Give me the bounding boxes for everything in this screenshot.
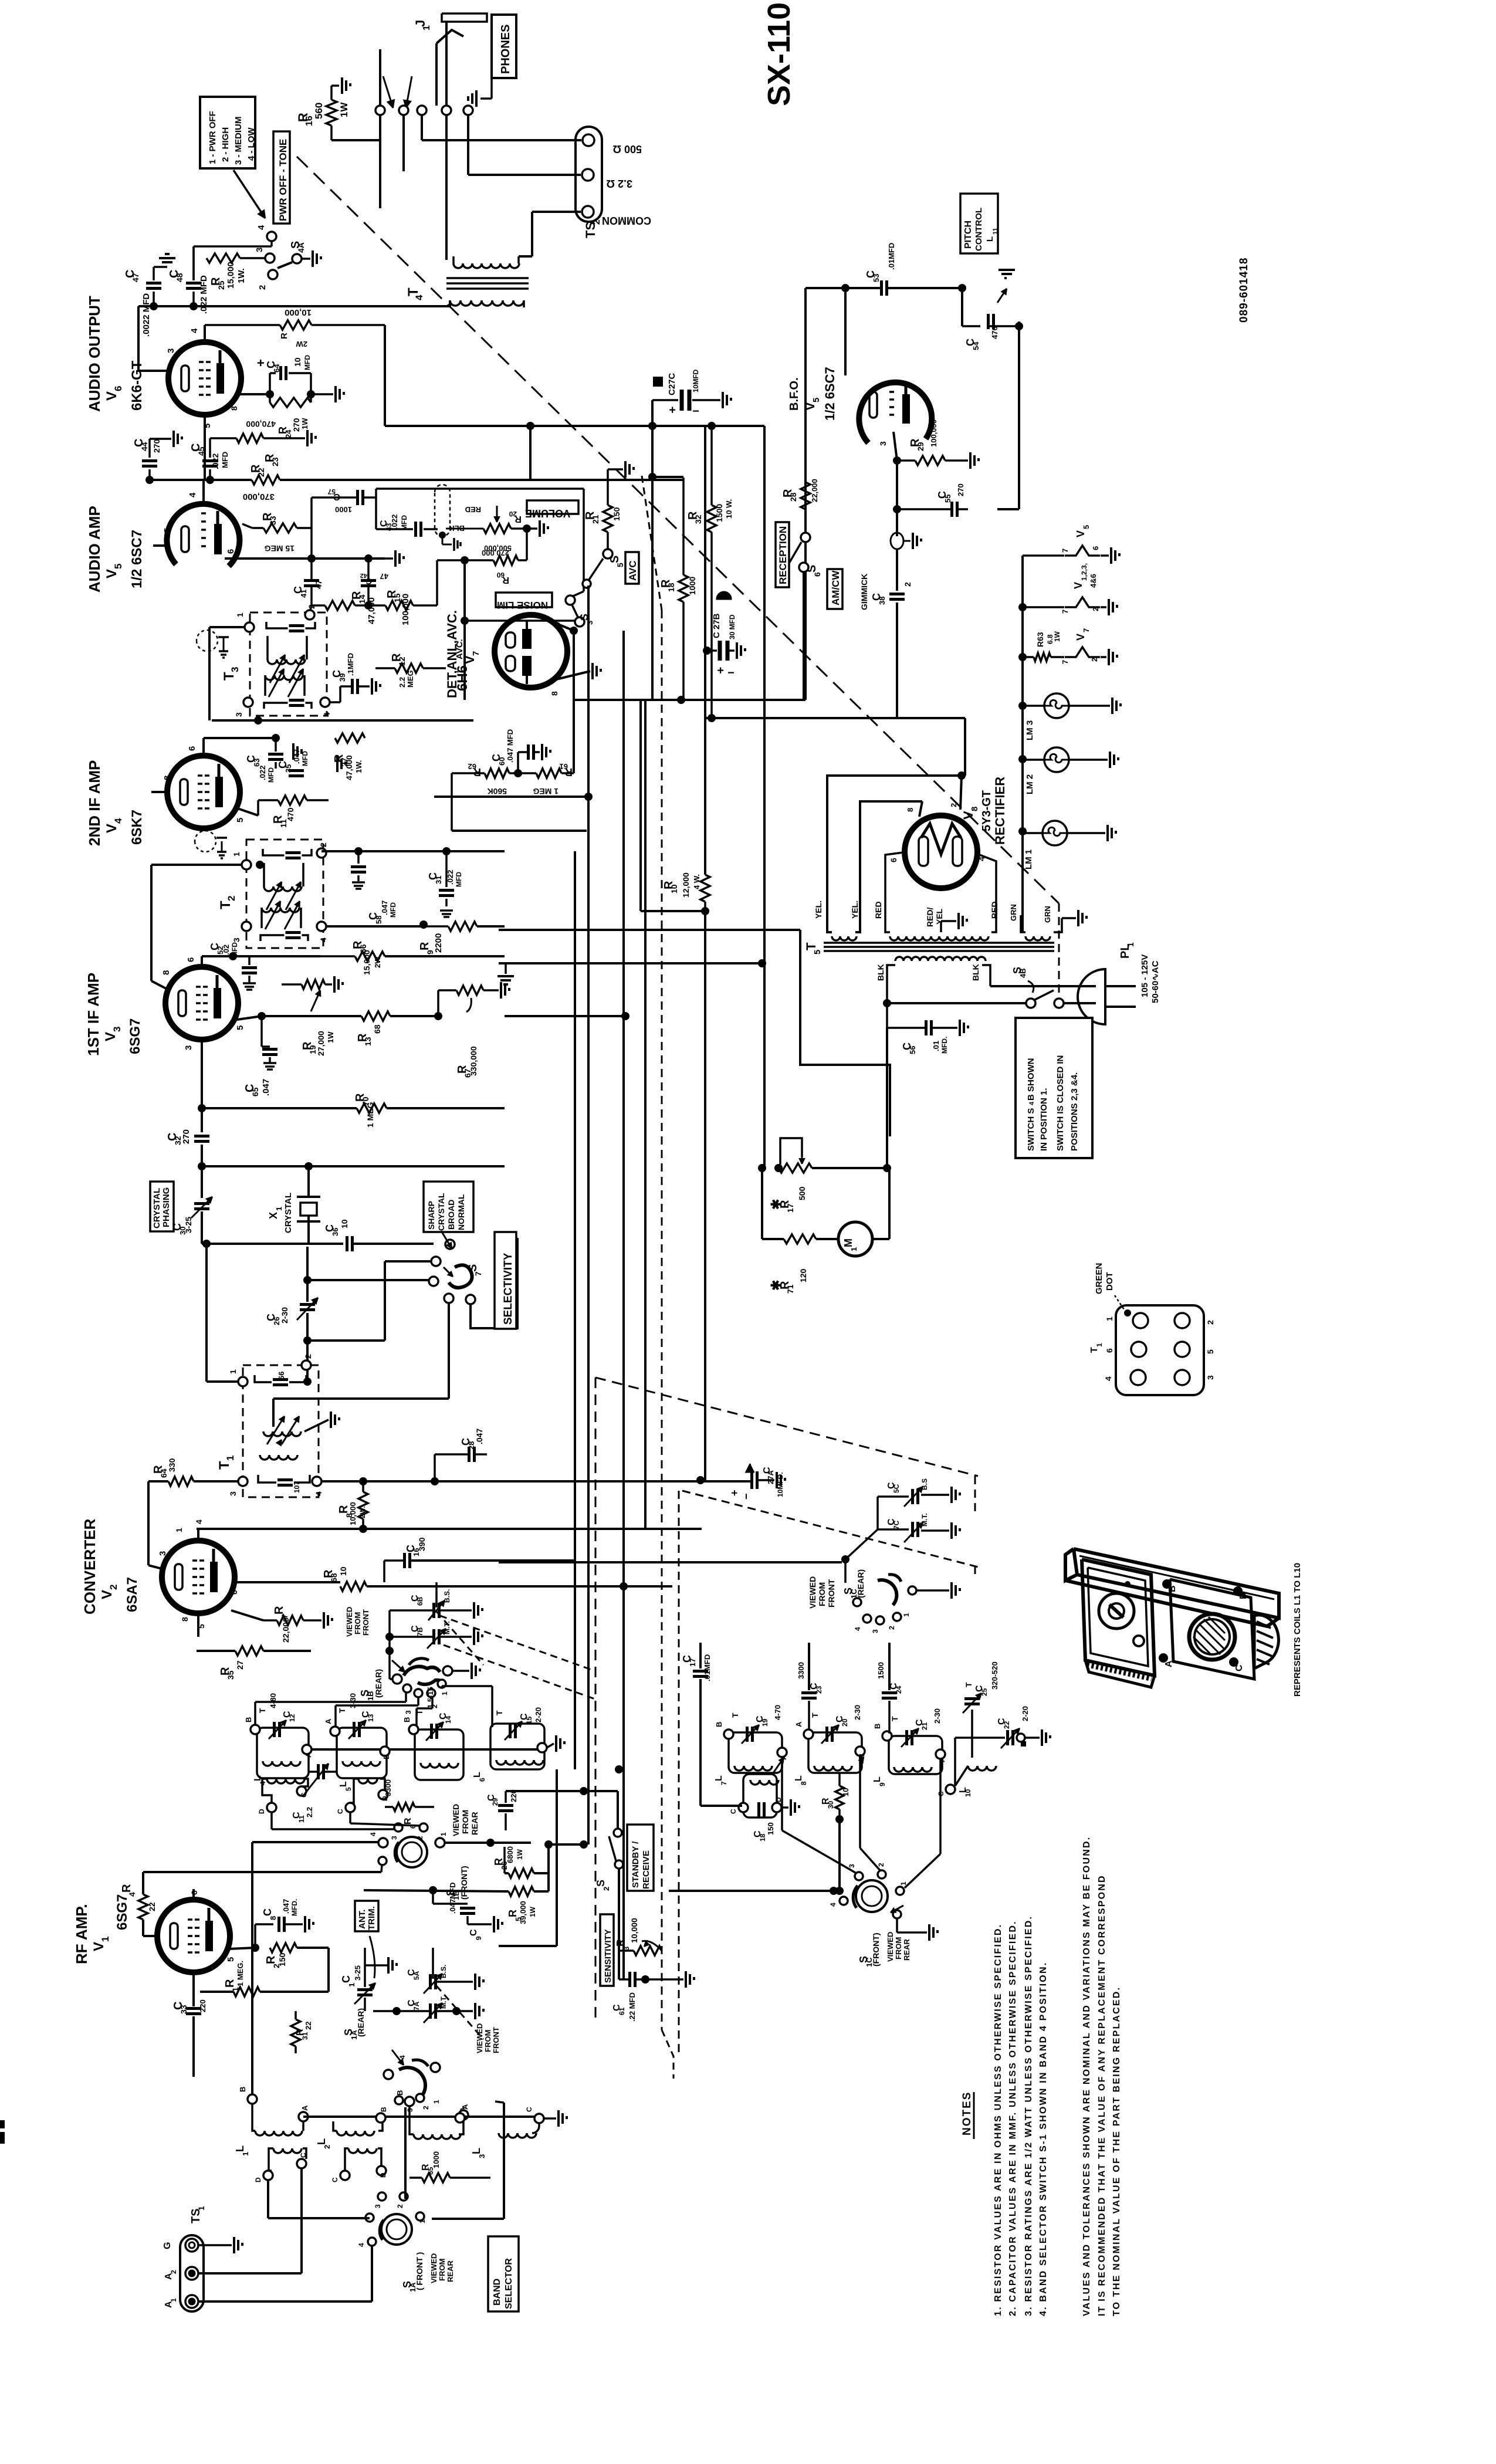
svg-text:7: 7 xyxy=(1061,660,1069,664)
V6 screen resistor 10,000 2W xyxy=(204,325,206,342)
capacitor C9 .047MFD xyxy=(432,1890,434,1904)
svg-text:B SHOWN: B SHOWN xyxy=(1026,1058,1036,1101)
phantom dashed circle left of T3 xyxy=(197,630,218,651)
svg-text:AUDIO AMP: AUDIO AMP xyxy=(86,506,103,593)
svg-text:56: 56 xyxy=(908,1046,917,1054)
resistor R18 1000 xyxy=(679,575,688,602)
svg-text:10,000: 10,000 xyxy=(285,307,312,317)
svg-text:L: L xyxy=(714,1775,724,1781)
potentiometer R3 10,000 xyxy=(634,1946,662,1955)
boxed label CRYSTAL PHASING xyxy=(150,1182,174,1231)
wire T3 pin3/pin4 bottom rail xyxy=(212,719,473,722)
bus verticals xyxy=(529,426,532,480)
transformer T4 output xyxy=(453,263,519,268)
svg-text:1: 1 xyxy=(235,612,245,617)
gimmick loop xyxy=(896,509,898,536)
ground right of pin6 wire xyxy=(385,557,393,560)
svg-text:5: 5 xyxy=(226,1957,236,1962)
L1 B vertical to grid rail xyxy=(251,1842,253,2094)
svg-text:1: 1 xyxy=(241,2152,250,2156)
filament bus xyxy=(1021,556,1024,833)
svg-text:REPRESENTS COILS L1 TO L10: REPRESENTS COILS L1 TO L10 xyxy=(1292,1563,1302,1697)
wire T3 pin1 left and down xyxy=(209,626,245,628)
svg-text:2W: 2W xyxy=(296,340,307,348)
svg-text:25: 25 xyxy=(216,280,226,290)
R26 R5 cluster xyxy=(509,1869,534,1878)
svg-text:9: 9 xyxy=(878,1782,886,1786)
svg-text:6: 6 xyxy=(186,957,196,962)
audio B+ rail to T4 xyxy=(150,302,158,310)
svg-text:L: L xyxy=(794,1775,804,1781)
svg-text:MFD: MFD xyxy=(301,751,309,766)
svg-text:9: 9 xyxy=(475,1936,483,1940)
svg-text:DOT: DOT xyxy=(1105,1272,1115,1291)
svg-text:55: 55 xyxy=(943,495,952,503)
svg-text:4: 4 xyxy=(314,1491,323,1496)
R62 C60 R61 detector load cluster xyxy=(452,772,485,774)
svg-text:5: 5 xyxy=(235,1025,245,1030)
resistor R30 10 xyxy=(835,1786,844,1809)
svg-text:1: 1 xyxy=(902,1613,911,1617)
svg-text:.0022 MFD: .0022 MFD xyxy=(141,293,151,337)
svg-text:3. RESISTOR RATINGS ARE 1: 3. RESISTOR RATINGS ARE 1/2 WATT UNLESS … xyxy=(1024,1915,1034,2316)
svg-text:CRYSTAL: CRYSTAL xyxy=(436,1193,446,1231)
resistor R21 150 xyxy=(603,505,612,532)
ground right of C31 xyxy=(440,909,453,912)
svg-text:2: 2 xyxy=(888,1626,896,1630)
coil shield can xyxy=(1170,1579,1254,1679)
pilot lamp LM2 xyxy=(1044,747,1069,772)
svg-text:B: B xyxy=(715,1722,723,1727)
svg-text:30 MFD: 30 MFD xyxy=(728,614,736,639)
svg-text:4&6: 4&6 xyxy=(1089,574,1098,588)
svg-text:4: 4 xyxy=(256,225,266,230)
svg-text:6: 6 xyxy=(189,1890,199,1895)
svg-text:6: 6 xyxy=(478,1778,486,1782)
svg-text:35: 35 xyxy=(226,1670,235,1680)
svg-text:PHASING: PHASING xyxy=(161,1187,171,1227)
boxed note SWITCH S4B SHOWN xyxy=(1016,1018,1092,1158)
svg-text:L: L xyxy=(471,2148,482,2154)
capacitor C44 270 xyxy=(148,469,151,480)
svg-text:3300: 3300 xyxy=(797,1662,805,1679)
svg-text:.047MFD: .047MFD xyxy=(448,1883,457,1914)
capacitor C27B 30MFD electrolytic xyxy=(703,647,711,655)
svg-text:560: 560 xyxy=(313,103,324,119)
svg-text:3 - MEDIUM: 3 - MEDIUM xyxy=(233,117,243,165)
svg-text:5C: 5C xyxy=(892,1484,901,1493)
svg-text:22,000: 22,000 xyxy=(281,1617,290,1643)
svg-text:10: 10 xyxy=(964,1789,972,1797)
capacitor C24 1500 xyxy=(882,1691,897,1694)
svg-text:44: 44 xyxy=(140,442,149,451)
svg-text:VIEWED: VIEWED xyxy=(429,2253,438,2283)
svg-text:NOISE LIM.: NOISE LIM. xyxy=(494,600,548,611)
svg-text:C: C xyxy=(469,1929,479,1936)
svg-text:3: 3 xyxy=(232,937,241,942)
svg-text:(FRONT): (FRONT) xyxy=(459,1866,469,1900)
capacitor C35 .047MFD xyxy=(289,769,304,772)
V3 pin6 wire xyxy=(201,956,203,967)
svg-text:SELECTOR: SELECTOR xyxy=(504,2258,514,2309)
svg-text:PITCH: PITCH xyxy=(963,221,973,249)
svg-text:31: 31 xyxy=(301,2032,309,2040)
V6 pin5 wire down to audio rail xyxy=(204,415,206,480)
svg-text:R: R xyxy=(403,1817,413,1825)
S4 contact row xyxy=(375,106,385,115)
svg-text:MFD: MFD xyxy=(303,355,312,370)
svg-text:470: 470 xyxy=(990,326,999,339)
T5 core xyxy=(824,942,1054,944)
svg-text:FRONT: FRONT xyxy=(361,1609,370,1636)
dashed fork to S5 xyxy=(642,476,662,610)
svg-text:YEL: YEL xyxy=(935,908,944,925)
svg-text:47: 47 xyxy=(131,273,140,282)
ground right of R67 (wire) xyxy=(483,989,499,991)
svg-text:58: 58 xyxy=(374,916,383,924)
S1C REAR rotor xyxy=(878,1580,896,1605)
svg-text:VIEWED: VIEWED xyxy=(475,2023,484,2053)
svg-text:150: 150 xyxy=(277,1952,287,1967)
V3 pin5 wire right xyxy=(237,1016,262,1020)
svg-text:6SA7: 6SA7 xyxy=(124,1577,140,1612)
svg-text:8: 8 xyxy=(550,691,559,696)
svg-text:B: B xyxy=(380,2107,388,2112)
svg-text:.047 MFD: .047 MFD xyxy=(506,729,515,763)
svg-text:V: V xyxy=(99,1590,115,1599)
svg-text:T: T xyxy=(964,1682,973,1687)
svg-text:L: L xyxy=(472,1772,482,1778)
capacitor C31 .022MFD xyxy=(445,851,448,887)
svg-text:61: 61 xyxy=(618,2007,626,2015)
switch S3 xyxy=(566,595,575,605)
dashed mechanical gang line (PWR OFF-TONE to S4B) xyxy=(297,157,1059,903)
S1B REAR bracket to C6B/C7B xyxy=(388,1651,391,1679)
TS1 ground from G xyxy=(198,2244,232,2246)
resistor R9 2200 xyxy=(448,922,477,931)
svg-text:2-30: 2-30 xyxy=(280,1307,289,1324)
svg-text:−: − xyxy=(740,1493,752,1500)
meter M1 xyxy=(838,1222,872,1256)
svg-text:5: 5 xyxy=(202,424,212,428)
svg-text:.1MFD: .1MFD xyxy=(346,653,355,676)
ground right of R20 xyxy=(527,527,537,530)
svg-text:3: 3 xyxy=(848,1864,856,1868)
svg-text:T: T xyxy=(337,1708,347,1713)
svg-text:S: S xyxy=(608,556,621,563)
cap in crystal line xyxy=(346,1236,348,1251)
svg-text:10: 10 xyxy=(339,1566,348,1576)
ground right of C8 xyxy=(304,1916,306,1932)
svg-text:FRONT: FRONT xyxy=(492,2027,500,2053)
svg-text:.022: .022 xyxy=(390,515,399,529)
svg-text:2: 2 xyxy=(323,2145,331,2149)
svg-text:1W: 1W xyxy=(529,1906,537,1917)
svg-text:3: 3 xyxy=(111,1027,123,1032)
switch S1B FRONT rotor xyxy=(397,1837,427,1867)
svg-text:D: D xyxy=(258,1809,266,1814)
svg-text:2 - HIGH: 2 - HIGH xyxy=(221,127,231,162)
svg-text:4 - LOW: 4 - LOW xyxy=(246,127,256,161)
grid return rail to crystal filter xyxy=(198,1162,206,1170)
svg-text:VALUES AND TOLERANCES SHOWN A: VALUES AND TOLERANCES SHOWN ARE NOMINAL … xyxy=(1082,1836,1092,2316)
svg-text:6: 6 xyxy=(226,549,236,554)
svg-text:1000: 1000 xyxy=(335,505,352,514)
svg-text:T: T xyxy=(218,901,233,909)
boxed label PITCH CONTROL xyxy=(960,194,998,253)
svg-text:2. CAPACITOR VALUES ARE IN: 2. CAPACITOR VALUES ARE IN MMF. UNLESS O… xyxy=(1008,1920,1018,2316)
svg-text:1: 1 xyxy=(432,2100,441,2104)
RF section A rail xyxy=(307,1748,543,1751)
arrow legend to S4A xyxy=(233,170,265,218)
svg-text:2: 2 xyxy=(422,2106,430,2110)
dashed gang through C7B xyxy=(436,1612,483,1665)
svg-text:SWITCH S: SWITCH S xyxy=(1026,1108,1036,1151)
trimmer C6B B.S. xyxy=(432,1603,435,1618)
svg-text:T: T xyxy=(495,1710,504,1715)
svg-text:1: 1 xyxy=(422,25,432,31)
T1 connector pinout diagram xyxy=(1116,1305,1204,1395)
L1 secondary xyxy=(273,2148,302,2153)
svg-text:FROM: FROM xyxy=(353,1612,362,1634)
svg-text:.022: .022 xyxy=(211,453,220,469)
svg-text:4-70: 4-70 xyxy=(773,1705,782,1720)
wire rail down to T1 pin1 xyxy=(205,1244,208,1382)
svg-text:370,000: 370,000 xyxy=(243,492,275,502)
V4 pin6 wire up xyxy=(202,738,205,756)
svg-text:2.2: 2.2 xyxy=(398,677,407,688)
svg-text:4: 4 xyxy=(322,712,331,717)
svg-text:.01MFD: .01MFD xyxy=(887,243,896,270)
resistor R35 27 xyxy=(235,1646,263,1656)
svg-text:L: L xyxy=(872,1776,882,1782)
L4 secondary coil xyxy=(267,1779,304,1783)
svg-text:24: 24 xyxy=(895,1685,903,1694)
svg-text:VIEWED: VIEWED xyxy=(808,1576,817,1609)
svg-text:RED: RED xyxy=(990,901,999,919)
long vertical rails mid page xyxy=(574,851,576,1769)
knob drum right xyxy=(1254,1615,1278,1668)
ground right of C39 xyxy=(371,678,373,695)
svg-text:22: 22 xyxy=(1003,1721,1011,1729)
svg-text:(REAR): (REAR) xyxy=(374,1669,383,1698)
AVC rail R70 1MEG xyxy=(198,1104,206,1112)
svg-text:4: 4 xyxy=(829,1903,837,1907)
svg-text:−: − xyxy=(727,666,735,679)
svg-text:1: 1 xyxy=(1105,1316,1114,1321)
svg-text:1W.: 1W. xyxy=(236,268,246,283)
svg-text:5: 5 xyxy=(813,950,823,955)
svg-text:3: 3 xyxy=(234,712,243,717)
svg-text:47,000: 47,000 xyxy=(344,755,354,780)
potentiometer R20 500,000 volume xyxy=(483,524,511,533)
switch S4A xyxy=(267,232,276,241)
ground right of C7C xyxy=(921,1529,949,1532)
capacitor C53 .01MFD xyxy=(880,280,883,296)
svg-text:V: V xyxy=(104,391,120,401)
svg-text:FROM: FROM xyxy=(461,1810,470,1834)
svg-text:15,000: 15,000 xyxy=(226,262,236,289)
svg-text:270: 270 xyxy=(956,483,965,496)
svg-text:5: 5 xyxy=(811,398,821,402)
switch S5 AVC xyxy=(603,549,612,559)
svg-text:RECTIFIER: RECTIFIER xyxy=(993,777,1007,845)
dashed gang from C6B C7B xyxy=(440,1616,591,1670)
trimmer C5A B.S. xyxy=(429,1974,432,1989)
svg-text:15,000: 15,000 xyxy=(362,950,371,975)
L7 secondary with C18 150 xyxy=(743,1774,777,1817)
svg-text:15: 15 xyxy=(525,1716,533,1724)
resistor R33 15MEG xyxy=(263,523,297,533)
capacitor C23 3300 xyxy=(801,1691,817,1694)
svg-text:10MFD: 10MFD xyxy=(692,369,700,392)
svg-text:REAR: REAR xyxy=(902,1939,911,1961)
svg-text:5: 5 xyxy=(113,564,124,569)
svg-text:71: 71 xyxy=(786,1284,795,1294)
pitch pot ground xyxy=(999,269,1015,271)
svg-text:1W: 1W xyxy=(339,102,350,117)
svg-text:TO THE NOMINAL VALUE OF T: TO THE NOMINAL VALUE OF THE PART BEING R… xyxy=(1112,1986,1122,2316)
svg-text:1/2 6SC7: 1/2 6SC7 xyxy=(823,367,837,421)
svg-text:47: 47 xyxy=(314,580,323,589)
svg-text:D: D xyxy=(254,2177,262,2182)
svg-text:L: L xyxy=(985,236,995,242)
capacitor C27C 10MFD electrolytic xyxy=(653,377,663,387)
svg-text:17: 17 xyxy=(688,1659,697,1667)
svg-text:R: R xyxy=(279,333,289,339)
tube V2 6SA7 xyxy=(162,1541,235,1613)
capacitor C63 .022MFD xyxy=(275,738,277,752)
TS1 A2 wire to coil C xyxy=(198,2272,302,2275)
meter wiring xyxy=(761,1168,763,1239)
svg-text:GIMMICK: GIMMICK xyxy=(859,574,869,610)
svg-text:(REAR): (REAR) xyxy=(856,1569,865,1598)
S1A FRONT contacts xyxy=(378,2192,386,2201)
3D coil assembly drawing xyxy=(1074,1549,1279,1618)
trimmer C7A M.T. xyxy=(429,2003,432,2019)
svg-text:C: C xyxy=(336,1809,344,1814)
S1C front ground wire xyxy=(896,1919,898,1932)
volume loop top wire xyxy=(376,488,584,490)
svg-text:270: 270 xyxy=(292,418,301,432)
svg-text:6SK7: 6SK7 xyxy=(129,810,145,845)
svg-text:1/2 6SC7: 1/2 6SC7 xyxy=(129,530,145,588)
resistor R71 120 xyxy=(784,1234,816,1244)
svg-text:32: 32 xyxy=(693,515,703,524)
T5 GRN filament winding xyxy=(1025,936,1050,940)
svg-text:VIEWED: VIEWED xyxy=(886,1932,895,1962)
svg-text:220: 220 xyxy=(198,1999,207,2012)
svg-text:1ST IF AMP: 1ST IF AMP xyxy=(84,973,102,1056)
svg-text:C: C xyxy=(340,1975,352,1983)
T5 center tap ground xyxy=(941,920,956,922)
svg-text:320-520: 320-520 xyxy=(990,1661,999,1690)
svg-text:T: T xyxy=(730,1712,740,1718)
ground of cathode network xyxy=(311,393,333,395)
svg-text:6B: 6B xyxy=(416,1596,424,1606)
svg-text:.02: .02 xyxy=(222,945,231,955)
svg-text:5: 5 xyxy=(163,528,172,533)
svg-text:28: 28 xyxy=(788,492,798,502)
svg-text:FROM: FROM xyxy=(894,1937,903,1959)
L5 secondary coil xyxy=(358,1779,377,1783)
svg-text:2W: 2W xyxy=(373,956,382,968)
svg-text:41: 41 xyxy=(299,590,308,598)
dashed gang through C7A xyxy=(436,1986,483,2039)
capacitor C55 270 xyxy=(896,461,898,509)
svg-text:6K6-GT: 6K6-GT xyxy=(129,360,145,411)
switch S1B REAR rotor xyxy=(409,1659,429,1665)
RF coil secondaries to S1B front contacts xyxy=(270,1812,273,1829)
power plug PL1 xyxy=(1078,969,1105,1024)
svg-text:( FRONT ): ( FRONT ) xyxy=(415,2252,424,2290)
svg-text:CRYSTAL: CRYSTAL xyxy=(283,1193,293,1233)
svg-text:38: 38 xyxy=(878,597,886,605)
V5 pin5 stub xyxy=(153,544,167,547)
TS1 A1 wire to S1A contact 4 xyxy=(198,2300,372,2303)
boxed label VOLUME xyxy=(527,500,578,514)
svg-text:14: 14 xyxy=(357,594,367,604)
phantom shield cylinder dashed xyxy=(435,485,450,536)
svg-text:36: 36 xyxy=(331,1228,340,1236)
svg-text:RED/: RED/ xyxy=(925,907,935,927)
svg-text:1: 1 xyxy=(197,2206,206,2211)
svg-text:33: 33 xyxy=(179,2005,188,2014)
ground right of C1 xyxy=(387,1957,390,1974)
svg-text:B.S.: B.S. xyxy=(443,1589,451,1603)
ground right of L10 sec xyxy=(544,2117,556,2120)
V7 ground pin8 xyxy=(551,671,590,681)
capacitor C48 .022MFD xyxy=(186,282,201,285)
svg-text:8: 8 xyxy=(163,776,172,780)
V1 pin5 wire xyxy=(229,1948,255,1949)
svg-text:A: A xyxy=(937,1756,946,1762)
ground right of gimmick xyxy=(903,540,911,542)
T2 shield ground xyxy=(221,841,223,852)
T2 pin4 rail with R9 xyxy=(326,925,424,928)
resistor R31 22 xyxy=(291,2019,300,2046)
ground at phones jack xyxy=(490,78,493,99)
trimmer C5C B.S. xyxy=(911,1489,914,1504)
svg-text:B: B xyxy=(1167,1585,1177,1592)
svg-text:50-60∿AC: 50-60∿AC xyxy=(1150,960,1160,1003)
svg-text:12: 12 xyxy=(288,1714,296,1722)
C23 C24 C25 down leads xyxy=(808,1701,810,1729)
coil bracket left unit xyxy=(1082,1559,1155,1676)
svg-text:A: A xyxy=(304,1752,313,1758)
ground above C47 xyxy=(154,266,167,268)
svg-text:+: + xyxy=(669,403,676,416)
svg-text:53: 53 xyxy=(872,274,881,282)
svg-text:13: 13 xyxy=(363,1037,373,1046)
svg-text:105 - 125V: 105 - 125V xyxy=(1140,955,1150,997)
wire V5 top to C53 xyxy=(844,288,847,375)
audio rail with R22 xyxy=(150,479,252,481)
capacitor C39 .1MFD xyxy=(351,679,354,694)
svg-text:4-80: 4-80 xyxy=(269,1693,277,1708)
wire T2 pin2 top xyxy=(256,861,264,869)
svg-text:1: 1 xyxy=(275,1207,283,1211)
ground above C44 xyxy=(148,439,151,446)
junction grid xyxy=(580,1787,588,1795)
resistor R68 10 xyxy=(340,1582,367,1591)
svg-text:21: 21 xyxy=(920,1722,929,1730)
resistor R24 270 1W xyxy=(270,398,311,407)
svg-text:3-25: 3-25 xyxy=(353,1965,362,1981)
svg-text:47,000: 47,000 xyxy=(367,597,377,624)
svg-text:66: 66 xyxy=(277,1372,286,1380)
svg-text:X: X xyxy=(268,1212,279,1219)
